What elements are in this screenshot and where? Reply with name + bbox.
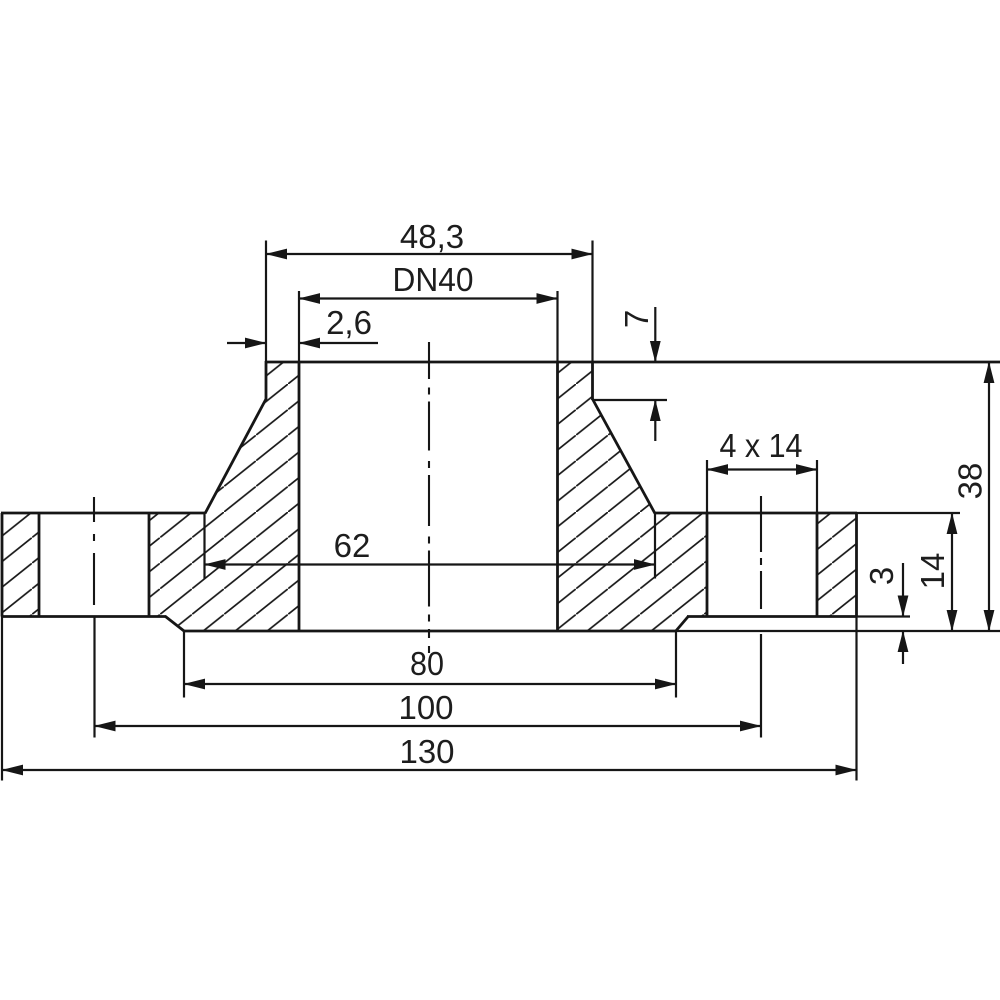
dimension DN40 : nominal bore: [298, 291, 300, 361]
svg-text:3: 3: [863, 567, 900, 585]
svg-text:2,6: 2,6: [326, 304, 372, 341]
outline: neck taper left: [205, 399, 266, 514]
centerline: left bolt hole: [93, 497, 95, 522]
hatched section: right flange body with neck wall: [558, 362, 708, 631]
svg-text:7: 7: [618, 310, 655, 328]
outline: flange top face right: [655, 512, 857, 515]
outline: right bolt hole wall inner: [706, 513, 709, 617]
svg-text:38: 38: [952, 463, 989, 500]
dimension 100 : bolt circle diameter: [93, 617, 95, 738]
outline: flange rim left edge: [1, 513, 4, 617]
outline: neck outer wall left: [265, 361, 268, 400]
outline: pipe-end top face (extends right as extension line): [266, 361, 1000, 364]
svg-text:130: 130: [399, 733, 454, 770]
outline: bore wall left (DN40): [298, 362, 301, 631]
extension line: raised face plane extended right: [676, 630, 1000, 632]
outline: flange top face left: [1, 512, 205, 515]
svg-text:48,3: 48,3: [400, 218, 464, 255]
svg-text:4 x 14: 4 x 14: [720, 427, 803, 464]
dimension 14 : flange thickness: [857, 512, 960, 514]
outline: raised face bottom: [184, 630, 676, 633]
svg-text:62: 62: [334, 527, 371, 564]
dimension 4 x 14 : bolt holes: [706, 460, 708, 513]
svg-text:80: 80: [410, 645, 444, 682]
outline: flange underside left: [1, 615, 166, 618]
svg-text:100: 100: [398, 689, 453, 726]
dimension 2,6 : pipe wall thickness: [227, 342, 266, 344]
outline: flange rim right edge: [855, 513, 858, 617]
dimension 80 : raised face diameter: [183, 631, 185, 698]
hatched section: right outer ring block: [817, 513, 857, 617]
dimension 62 : hub diameter: [203, 513, 205, 579]
hatched section: left outer ring block: [2, 513, 39, 617]
dimension 7 : straight neck height: [593, 399, 668, 401]
svg-text:DN40: DN40: [393, 261, 474, 298]
centerline: main axis: [428, 342, 430, 379]
dimension 48,3 : pipe outer diameter: [265, 241, 267, 362]
outline: right bolt hole wall outer: [816, 513, 819, 617]
svg-text:14: 14: [914, 553, 951, 590]
dimension 130 : flange outer diameter: [1, 617, 3, 781]
centerline: right bolt hole: [760, 496, 762, 552]
dimension 3 : raised face height: [857, 615, 911, 617]
outline: bore wall right (DN40): [556, 362, 559, 631]
outline: neck taper right: [593, 399, 656, 514]
hatched section: left flange body with neck wall: [149, 362, 299, 631]
outline: raised face chamfer left: [165, 616, 185, 631]
outline: raised face chamfer right: [676, 616, 689, 631]
outline: left bolt hole wall inner: [148, 513, 151, 617]
outline: flange underside right: [687, 615, 857, 618]
outline: neck outer wall right: [591, 361, 594, 400]
outline: left bolt hole wall outer: [38, 513, 41, 617]
